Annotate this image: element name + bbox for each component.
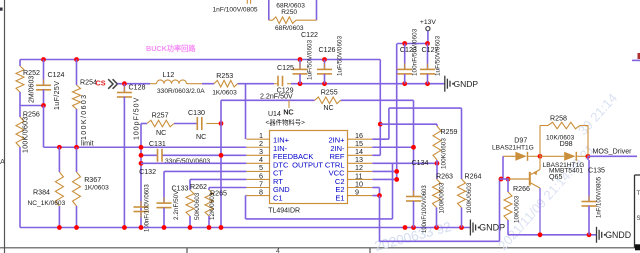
svg-text:4: 4 xyxy=(276,248,280,253)
svg-text:C131: C131 xyxy=(149,140,166,148)
svg-text:GNDP: GNDP xyxy=(454,79,479,89)
svg-text:R250: R250 xyxy=(281,9,297,16)
svg-text:1K/0603: 1K/0603 xyxy=(84,185,109,192)
svg-text:C1: C1 xyxy=(273,193,283,202)
wire R257 to C130 xyxy=(174,123,197,125)
svg-text:C134: C134 xyxy=(412,159,429,167)
svg-text:T: T xyxy=(637,191,640,197)
svg-text:limit: limit xyxy=(81,139,94,147)
wire L12 to R253 xyxy=(202,83,214,85)
capacitor C135 1nF/100V/0805 xyxy=(587,156,589,160)
svg-text:1uF/50V/0603: 1uF/50V/0603 xyxy=(307,39,314,80)
svg-text:BUCK功率回路: BUCK功率回路 xyxy=(146,44,196,53)
resistor R266 10K/0603 xyxy=(507,179,509,192)
capacitor C127 1uF/50V/0603 xyxy=(427,44,429,70)
wire pin9 E1 xyxy=(372,195,379,197)
resistor R256 xyxy=(16,117,24,147)
node REF divider xyxy=(378,122,383,127)
frame left border xyxy=(4,0,6,253)
frame tick marks xyxy=(186,248,188,253)
svg-text:2.2nF/50V: 2.2nF/50V xyxy=(173,190,180,220)
ground GNDP bottom xyxy=(469,220,471,236)
node junction C124 top xyxy=(41,57,46,62)
wire CS row xyxy=(118,83,151,85)
svg-text:9: 9 xyxy=(355,187,359,196)
wire R252-R256 junction to C124 xyxy=(20,105,44,107)
resistor R262 50K/0603 xyxy=(189,179,191,190)
svg-text:C128: C128 xyxy=(129,84,146,92)
svg-text:100K/0603: 100K/0603 xyxy=(466,182,473,213)
wire C129 to GNDP rail xyxy=(291,83,445,85)
svg-text:100nF/50V/0603: 100nF/50V/0603 xyxy=(412,28,419,76)
svg-text:GNDD: GNDD xyxy=(605,230,631,240)
node feedback riser junction xyxy=(219,153,224,158)
op-amp U14 TL494IDR body xyxy=(270,131,348,204)
svg-text:U14: U14 xyxy=(268,111,281,118)
svg-text:NC: NC xyxy=(196,133,206,141)
capacitor C129 2.2nF/50V xyxy=(274,83,278,85)
svg-text:LBAS21HT1G: LBAS21HT1G xyxy=(492,144,534,151)
diode D98 LBAS21HT1G xyxy=(540,155,564,157)
svg-text:NC_1K/0603: NC_1K/0603 xyxy=(28,200,66,207)
svg-text:10K/0603: 10K/0603 xyxy=(546,135,575,142)
wire pin15 to C134 xyxy=(372,146,413,148)
svg-text:D97: D97 xyxy=(514,137,527,145)
wire limit row to pin2 xyxy=(44,146,247,148)
diode D97 LBAS21HT1G xyxy=(503,155,515,157)
inductor L12 330R/0603/2.0A xyxy=(150,83,157,85)
svg-text:R266: R266 xyxy=(513,185,530,193)
resistor R254 100K xyxy=(76,60,78,86)
svg-text:10K/0603: 10K/0603 xyxy=(514,195,521,223)
svg-text:L12: L12 xyxy=(163,71,175,79)
wire pin4 DTC row xyxy=(141,162,246,164)
svg-text:R263: R263 xyxy=(436,173,453,181)
svg-text:MOS_Driver: MOS_Driver xyxy=(593,148,633,156)
svg-text:GNDP: GNDP xyxy=(479,223,505,233)
svg-text:NC: NC xyxy=(284,109,294,117)
capacitor C11 remnant top xyxy=(246,0,248,4)
wire +13V rail xyxy=(397,43,428,45)
resistor R252 xyxy=(19,60,21,67)
svg-text:8: 8 xyxy=(259,187,263,196)
wire pin1 riser from CS row xyxy=(245,84,247,140)
resistor R257 NC xyxy=(141,123,147,125)
svg-text:Q65: Q65 xyxy=(549,173,562,181)
wire pin12 VCC xyxy=(372,170,396,172)
svg-text:1uF/25V: 1uF/25V xyxy=(54,81,61,110)
wire pin11 C2 xyxy=(372,178,396,180)
svg-text:2M/0603: 2M/0603 xyxy=(29,76,36,103)
svg-text:50K/0603: 50K/0603 xyxy=(194,192,201,220)
transistor Q65 MMBT5401 xyxy=(529,172,531,186)
frame bottom border xyxy=(0,247,640,249)
capacitor C123 100nF/50V/0603 xyxy=(404,44,406,70)
svg-text:C132: C132 xyxy=(139,168,156,176)
svg-text:12K/0603: 12K/0603 xyxy=(209,192,216,220)
capacitor C124 1uF/25V xyxy=(43,60,45,86)
wire ground bus xyxy=(20,227,470,229)
svg-text:R254: R254 xyxy=(80,79,97,87)
wire right edge stub xyxy=(632,59,640,61)
node D98 cathode junction xyxy=(586,154,591,159)
svg-text:R258: R258 xyxy=(550,115,567,123)
node C123 bottom xyxy=(402,81,407,86)
node C132 col feedback xyxy=(139,153,144,158)
svg-text:100K/0603: 100K/0603 xyxy=(441,138,448,169)
wire pin14 to top rail drop xyxy=(372,154,380,156)
capacitor stub NC xyxy=(288,100,290,108)
node C126 bottom xyxy=(322,81,327,86)
resistor R255 NC xyxy=(315,97,341,104)
svg-text:C135: C135 xyxy=(588,167,605,175)
svg-text:R262: R262 xyxy=(190,183,207,191)
svg-text:2.2nF/50V: 2.2nF/50V xyxy=(260,92,293,100)
node C128 top xyxy=(122,81,127,86)
wire top rail xyxy=(20,59,380,61)
svg-text:R255: R255 xyxy=(321,88,338,96)
svg-text:1K/0603: 1K/0603 xyxy=(212,89,237,96)
wire +13V drop to VCC xyxy=(396,44,398,180)
capacitor C131 33nF/50V/0603 xyxy=(157,149,159,162)
svg-text:1uF/50V/0603: 1uF/50V/0603 xyxy=(337,35,344,76)
svg-text:<器件物料号>: <器件物料号> xyxy=(266,118,306,127)
resistor R253 1K/0603 xyxy=(214,80,238,87)
wire mid rail xyxy=(221,99,315,101)
svg-text:1nF/100V/0805: 1nF/100V/0805 xyxy=(596,176,602,218)
title block corner xyxy=(634,175,636,248)
node R384 top xyxy=(57,145,62,150)
svg-text:100nF/100V/0603: 100nF/100V/0603 xyxy=(422,185,428,233)
wire top rail drop right xyxy=(379,60,381,156)
svg-text:NC: NC xyxy=(156,129,166,137)
svg-text:R264: R264 xyxy=(465,173,482,181)
svg-text:330R/0603/2.0A: 330R/0603/2.0A xyxy=(157,88,205,95)
svg-text:C122: C122 xyxy=(301,31,318,39)
node C127 bottom xyxy=(425,81,430,86)
capacitor C126 1uF/50V/0603 xyxy=(322,57,327,62)
wire C130 row left riser xyxy=(140,124,142,228)
node R367 top xyxy=(74,145,79,150)
node D97 cathode junction xyxy=(538,154,543,159)
resistor R259 100K/0603 xyxy=(436,124,438,126)
wire mid rail drop to C134 xyxy=(413,100,415,196)
resistor R384 NC_1K/0603 xyxy=(58,147,60,172)
resistor R264 100K/0603 xyxy=(461,175,463,179)
wire pin13 row xyxy=(372,162,437,164)
resistor R367 1K/0603 xyxy=(76,147,78,172)
svg-text:+13V: +13V xyxy=(420,19,437,26)
svg-text:R253: R253 xyxy=(216,72,233,80)
svg-text:CS: CS xyxy=(96,79,106,88)
wire C1 GND loop xyxy=(245,195,248,197)
node Q65 base row xyxy=(499,177,504,182)
wire feedback row xyxy=(141,154,158,156)
svg-text:100pF/50V: 100pF/50V xyxy=(134,97,141,140)
svg-text:E1: E1 xyxy=(335,193,344,202)
wire pin10 E2 xyxy=(372,187,379,189)
ground GNDP top xyxy=(444,76,446,92)
capacitor C130 NC xyxy=(196,117,198,130)
resistor R250 68R xyxy=(268,0,270,20)
svg-text:TL494IDR: TL494IDR xyxy=(268,208,300,215)
svg-text:100nF/100V/0603: 100nF/100V/0603 xyxy=(144,184,150,232)
svg-text:R384: R384 xyxy=(33,189,50,197)
svg-text:R259: R259 xyxy=(441,128,458,136)
wire right ground bus xyxy=(508,234,596,236)
svg-text:100K/0603: 100K/0603 xyxy=(23,116,30,153)
svg-text:100K/0603: 100K/0603 xyxy=(439,182,446,213)
node C132 col crossing limit xyxy=(139,145,144,150)
svg-text:C126: C126 xyxy=(319,46,336,54)
wire REF row to R259 xyxy=(380,123,437,125)
capacitor C133 2.2nF/50V xyxy=(163,171,165,203)
wire E1E2 to base loop xyxy=(379,196,381,242)
capacitor C125 1uF/50V/0603 xyxy=(298,57,303,62)
svg-text:R257: R257 xyxy=(152,112,169,120)
svg-text:C130: C130 xyxy=(188,109,205,117)
wire D97 anode drop xyxy=(502,156,504,179)
node junction R254 top xyxy=(74,57,79,62)
node C130 right xyxy=(219,121,224,126)
ground GNDD xyxy=(596,227,598,243)
wire pin16 to R264 top route xyxy=(372,138,389,140)
resistor R265 12K/0603 xyxy=(208,188,210,191)
svg-text:NC: NC xyxy=(323,104,333,112)
svg-text:100K/0603: 100K/0603 xyxy=(81,94,88,140)
node pin4 crossing C132 xyxy=(139,161,144,166)
svg-text:R367: R367 xyxy=(84,176,101,184)
node C122 bottom xyxy=(298,81,303,86)
svg-text:68R/0603: 68R/0603 xyxy=(275,25,304,32)
capacitor C132 100nF/100V/0603 xyxy=(140,201,142,207)
svg-text:1nF/100V/0805: 1nF/100V/0805 xyxy=(213,6,258,13)
resistor R258 10K/0603 xyxy=(539,126,541,157)
resistor R263 100K/0603 xyxy=(436,163,438,179)
svg-text:C124: C124 xyxy=(48,71,65,79)
svg-text:C125: C125 xyxy=(277,64,294,72)
wire feedback riser xyxy=(220,100,222,227)
wire MOS_Driver output xyxy=(588,155,637,157)
chip pin stubs and numbers xyxy=(246,138,269,140)
wire base row xyxy=(500,178,509,180)
svg-text:1uF/50V/0603: 1uF/50V/0603 xyxy=(435,35,442,76)
svg-text:S: S xyxy=(637,216,640,222)
svg-text:39 21:14: 39 21:14 xyxy=(575,90,620,138)
svg-text:A: A xyxy=(0,157,5,166)
wire R253 to C129 xyxy=(238,83,275,85)
capacitor C134 100nF/100V/0603 xyxy=(413,191,415,197)
capacitor C128 100pF/50V xyxy=(123,84,125,93)
port chevron CS xyxy=(108,79,117,89)
